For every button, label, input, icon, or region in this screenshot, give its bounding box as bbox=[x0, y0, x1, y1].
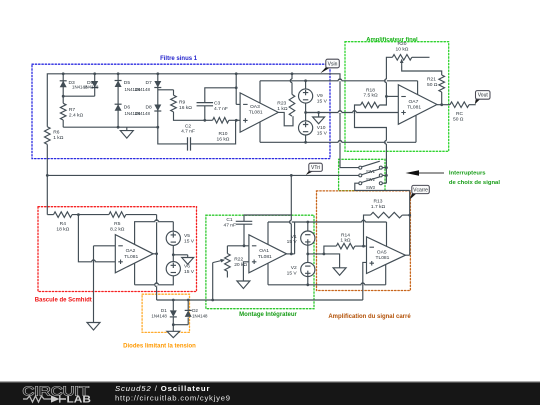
junction rail-D9 bbox=[93, 72, 96, 75]
ground of OA2 minus bbox=[87, 323, 100, 331]
op-amp OA2 TL081 bbox=[115, 235, 153, 273]
resistor R4 bbox=[54, 212, 73, 218]
wire 0V to ground stub bbox=[306, 112, 319, 114]
diode D9 bbox=[91, 81, 98, 88]
junction SW1 to riser bbox=[385, 166, 388, 169]
junction V1-V2 0V node bbox=[306, 253, 309, 256]
junction R4-R5 divider node bbox=[77, 213, 80, 216]
op-amp OA1 TL081 bbox=[249, 235, 287, 273]
diode D1 bbox=[170, 310, 177, 317]
svg-text:1N4148: 1N4148 bbox=[151, 313, 167, 318]
hop output riser over V- row bbox=[156, 283, 157, 287]
wire V+ rail +15V bbox=[260, 80, 418, 82]
wire R5 right to output riser bbox=[126, 214, 157, 216]
wire top rail of filter (summing node) bbox=[47, 74, 358, 168]
junction C1-minus node bbox=[243, 244, 246, 247]
wire 0V rail bbox=[306, 112, 399, 114]
svg-text:Montage Intégrateur: Montage Intégrateur bbox=[239, 312, 297, 318]
junction R10-C2-OA3plus bbox=[235, 119, 238, 122]
svg-text:47 nF: 47 nF bbox=[223, 223, 236, 229]
svg-text:16 kΩ: 16 kΩ bbox=[179, 105, 192, 111]
wire VTri riser bbox=[290, 175, 292, 215]
svg-text:1N4148: 1N4148 bbox=[83, 85, 99, 90]
svg-text:TL081: TL081 bbox=[376, 255, 390, 261]
wiper arrow of R22 bbox=[213, 261, 221, 263]
svg-text:TL081: TL081 bbox=[124, 254, 138, 260]
flag VTri bbox=[306, 170, 314, 175]
svg-text:R14: R14 bbox=[341, 232, 350, 238]
section box Amplification du signal carre (brown dashed) bbox=[317, 191, 411, 291]
resistor R21 bbox=[439, 75, 445, 92]
svg-text:Amplification du signal carré: Amplification du signal carré bbox=[328, 314, 411, 320]
wire C1 bottom lead bbox=[243, 224, 245, 246]
junction bottom row-D8 bbox=[156, 126, 159, 129]
section box Montage Integrateur (green dashed) bbox=[206, 215, 314, 309]
wire C3 top hook to OA3 minus riser bbox=[205, 88, 236, 103]
wire OA3 output jog to R23 bottom bbox=[278, 112, 293, 125]
wire R6 bottom to VTri node bbox=[46, 144, 48, 214]
svg-text:D7: D7 bbox=[146, 80, 153, 86]
wire OA1 output stub bbox=[287, 253, 295, 255]
svg-text:7.5 kΩ: 7.5 kΩ bbox=[363, 93, 378, 99]
wire OA2 minus to ground bbox=[93, 246, 95, 323]
svg-text:1.7 kΩ: 1.7 kΩ bbox=[371, 204, 386, 210]
wire VTri row bbox=[47, 174, 358, 176]
op-amp OA3 TL081 bbox=[240, 93, 278, 132]
svg-text:15 V: 15 V bbox=[287, 239, 298, 245]
section box Filtre sinus 1 (blue dashed) bbox=[32, 64, 330, 158]
svg-text:Vout: Vout bbox=[478, 93, 489, 99]
wire R9 bottom to node A row bbox=[174, 112, 205, 120]
wire minus node to OA7 bbox=[386, 95, 398, 97]
ground of V9-V10 supply bbox=[313, 117, 325, 124]
junction 0V rail-V9V10 bbox=[304, 111, 307, 114]
svg-text:TL081: TL081 bbox=[407, 105, 421, 111]
svg-text:D2: D2 bbox=[192, 308, 198, 313]
wire R13 left corner bbox=[364, 215, 371, 246]
wire D7-D8 column bbox=[157, 74, 159, 127]
svg-text:de choix de signal: de choix de signal bbox=[449, 180, 500, 186]
diode D6 bbox=[115, 103, 122, 105]
svg-text:R18: R18 bbox=[366, 87, 375, 93]
wire OA1 V- riser bbox=[267, 263, 269, 285]
junction rail-R23 bbox=[291, 72, 294, 75]
svg-text:R22: R22 bbox=[234, 256, 243, 262]
junction rail-D5 bbox=[117, 72, 120, 75]
wire D9 column bbox=[94, 74, 96, 96]
svg-text:1N4148: 1N4148 bbox=[135, 87, 151, 92]
potentiometer R20 bbox=[392, 55, 411, 61]
wire SW3 right contact bbox=[383, 182, 387, 184]
svg-text:1 kΩ: 1 kΩ bbox=[277, 106, 288, 112]
svg-text:Vcarre: Vcarre bbox=[413, 187, 428, 193]
junction OA7 minus node bbox=[385, 95, 388, 98]
wire R18 right to minus node bbox=[379, 96, 386, 105]
section box Bascule de Scmhidt (red dashed) bbox=[38, 207, 197, 292]
wire D3-D9 bottom row bbox=[63, 95, 94, 97]
svg-text:V5: V5 bbox=[184, 233, 190, 239]
svg-text:http://circuitlab.com/cykjye9: http://circuitlab.com/cykjye9 bbox=[115, 394, 231, 403]
wire R4-R5 row bbox=[72, 214, 109, 216]
junction node A - C3 bbox=[203, 119, 206, 122]
svg-text:R4: R4 bbox=[60, 221, 67, 227]
voltage source V10 15V bbox=[299, 121, 313, 135]
voltage source V2 15V bbox=[301, 262, 315, 276]
svg-text:4.7 nF: 4.7 nF bbox=[181, 129, 195, 135]
junction rail-D2 bbox=[187, 299, 190, 302]
wire R10 to OA3 plus bbox=[229, 119, 240, 121]
svg-text:VTri: VTri bbox=[311, 165, 320, 171]
hop V- row over output riser bbox=[155, 283, 159, 285]
wire SW3 left to Vcarre net bbox=[355, 183, 410, 190]
svg-text:V1: V1 bbox=[291, 234, 297, 240]
capacitor C3 bbox=[197, 103, 214, 106]
hop VTri riser over V+ row bbox=[291, 220, 292, 224]
wire output riser seg bbox=[294, 222, 296, 254]
footer bar CircuitLab bbox=[0, 381, 540, 405]
wire OA2 minus input bbox=[94, 245, 116, 247]
svg-text:TL081: TL081 bbox=[258, 254, 272, 260]
svg-text:4.7 nF: 4.7 nF bbox=[214, 106, 228, 112]
wire V1-V2 mid bbox=[307, 245, 309, 262]
svg-text:V10: V10 bbox=[317, 125, 326, 131]
svg-text:OA7: OA7 bbox=[409, 99, 419, 105]
wire D5-D6 column bbox=[117, 74, 119, 127]
switch SW1 bbox=[359, 166, 362, 169]
wire rail to OA3 minus riser bbox=[235, 74, 237, 105]
svg-text:15 V: 15 V bbox=[317, 130, 328, 136]
wire OA2 output stub bbox=[153, 253, 157, 255]
svg-text:R20: R20 bbox=[398, 41, 407, 47]
svg-text:R21: R21 bbox=[427, 76, 436, 82]
wire divider node to OA2 plus bbox=[78, 215, 115, 262]
wire V9 top lead bbox=[305, 81, 307, 89]
wire D1 top lead bbox=[172, 300, 174, 310]
svg-text:10 kΩ: 10 kΩ bbox=[396, 46, 409, 52]
wire OA3 V- riser bbox=[259, 122, 261, 142]
junction SW2 to riser bbox=[385, 174, 388, 177]
wire V9-V10 mid bbox=[305, 103, 307, 121]
svg-text:15 V: 15 V bbox=[317, 98, 328, 104]
section box Diodes limitant la tension (orange dashed) bbox=[142, 294, 189, 332]
svg-text:D1: D1 bbox=[161, 308, 167, 313]
svg-text:18 kΩ: 18 kΩ bbox=[56, 227, 69, 233]
wire R20 left lead bbox=[386, 57, 392, 96]
diode D2 bbox=[185, 309, 192, 311]
junction V- rail-V10 bbox=[304, 141, 307, 144]
svg-text:D5: D5 bbox=[124, 80, 131, 86]
svg-text:20 kΩ: 20 kΩ bbox=[234, 262, 247, 268]
hop V- row over OA5 plus riser bbox=[361, 283, 365, 285]
svg-text:R13: R13 bbox=[374, 199, 383, 205]
wire 0V row to OA5 ground bbox=[308, 254, 340, 268]
svg-text:OA2: OA2 bbox=[126, 248, 136, 254]
diode D7 bbox=[154, 81, 161, 88]
hop V+ row over R13 riser bbox=[362, 220, 366, 222]
wire D8 column to C2 left bbox=[158, 127, 181, 144]
wire R23 top lead bbox=[291, 74, 293, 95]
wire OA7 V+ riser bbox=[417, 81, 419, 95]
wire D2 top lead bbox=[187, 300, 189, 310]
hop R20 lead over V+ rail bbox=[386, 79, 387, 83]
wire schmidt supply ground stub bbox=[187, 255, 189, 257]
wire R22 top lead bbox=[226, 246, 228, 254]
wire D3 column bbox=[62, 74, 64, 96]
ground of V5-V6 supply bbox=[182, 258, 194, 265]
wire node A row to R10 bbox=[205, 119, 213, 121]
resistor R7 bbox=[60, 103, 66, 120]
voltage source V6 15V bbox=[166, 262, 180, 276]
resistor RC bbox=[450, 102, 469, 108]
wire C3 bottom lead bbox=[204, 106, 206, 121]
svg-text:Filtre sinus 1: Filtre sinus 1 bbox=[160, 56, 198, 62]
junction D3-R7 node bbox=[62, 95, 65, 98]
wire square-wave rail bbox=[157, 299, 363, 301]
svg-text:R10: R10 bbox=[219, 131, 228, 137]
svg-text:16 kΩ: 16 kΩ bbox=[217, 137, 230, 143]
diode D5 bbox=[115, 80, 122, 82]
diode D8 bbox=[154, 105, 161, 112]
flag Vcarre bbox=[410, 192, 417, 199]
svg-text:50 Ω: 50 Ω bbox=[453, 117, 464, 123]
svg-text:2.4 kΩ: 2.4 kΩ bbox=[69, 112, 84, 118]
junction V+ row-V1 bbox=[306, 221, 309, 224]
wire supply ground stub bbox=[318, 113, 320, 117]
voltage source V9 15V bbox=[299, 89, 313, 103]
wire Vcarre riser bbox=[409, 190, 411, 255]
junction OA7 output node bbox=[440, 103, 443, 106]
resistor R5 bbox=[109, 212, 126, 218]
arrow pointing at switches bbox=[419, 172, 444, 174]
svg-text:OA5: OA5 bbox=[377, 250, 387, 256]
wire C2 left lead bbox=[181, 143, 188, 145]
junction V- row-V2 bbox=[306, 283, 309, 286]
wire D1 bottom lead bbox=[172, 318, 174, 325]
svg-text:V9: V9 bbox=[317, 93, 323, 99]
wire R21 bottom lead bbox=[441, 92, 443, 105]
svg-text:C1: C1 bbox=[226, 217, 233, 223]
switch SW2 bbox=[359, 174, 362, 177]
junction D1-ground node bbox=[172, 323, 175, 326]
hop switch riser over V- rail bbox=[386, 141, 387, 145]
wire minus riser to OA3 bbox=[236, 103, 240, 105]
wire RC to Vout bbox=[469, 104, 476, 106]
resistor R10 bbox=[213, 118, 229, 124]
wire SW1 right contact bbox=[383, 167, 387, 169]
wire C1 top feedback path bbox=[244, 215, 291, 254]
wire OA2 V- riser bbox=[134, 263, 136, 285]
wire V6 bottom to V- row bbox=[135, 276, 174, 285]
potentiometer R22 body bbox=[225, 254, 231, 272]
junction V+ rail-V9 bbox=[304, 79, 307, 82]
svg-text:15 V: 15 V bbox=[184, 238, 195, 244]
junction bottom row-D6 bbox=[117, 126, 120, 129]
svg-text:Vsin: Vsin bbox=[328, 61, 338, 67]
wire OA7 output bbox=[437, 104, 450, 106]
svg-text:LAB: LAB bbox=[67, 395, 92, 405]
hop V+ rail over Vsin line bbox=[338, 79, 342, 81]
wire V1 top lead bbox=[307, 222, 309, 231]
svg-text:D8: D8 bbox=[146, 104, 153, 110]
wire V- row bottom section bbox=[268, 284, 386, 286]
wire SW2 right contact bbox=[383, 174, 387, 176]
wire R22 wiper down to rail bbox=[212, 263, 214, 300]
svg-text:R7: R7 bbox=[69, 107, 76, 113]
hop 0V rail over Vsin line bbox=[338, 111, 342, 113]
svg-text:OA3: OA3 bbox=[250, 104, 260, 110]
junction C3 hook bbox=[235, 86, 238, 89]
wire diode ground stub bbox=[172, 325, 174, 332]
svg-text:15 V: 15 V bbox=[184, 269, 195, 275]
junction ground stub bbox=[317, 111, 320, 114]
flag Vout bbox=[475, 98, 481, 104]
svg-text:1N4148: 1N4148 bbox=[135, 111, 151, 116]
wire R7 top lead bbox=[62, 96, 64, 103]
junction R13-Vcarre node bbox=[408, 214, 411, 217]
section box switch group (green dashed) bbox=[339, 159, 385, 190]
wiper arrow of R20 bbox=[401, 62, 403, 66]
junction R13-R14-minus node bbox=[362, 245, 365, 248]
op-amp OA5 TL081 bbox=[367, 237, 406, 274]
resistor R9 bbox=[171, 95, 177, 112]
svg-text:Interrupteurs: Interrupteurs bbox=[449, 171, 486, 177]
svg-text:R23: R23 bbox=[277, 101, 286, 107]
switch SW3 bbox=[359, 182, 362, 185]
wire OA5 V+ riser bbox=[386, 222, 388, 246]
svg-text:Bascule de Scmhidt: Bascule de Scmhidt bbox=[35, 297, 92, 303]
svg-text:RC: RC bbox=[456, 111, 464, 117]
junction VTri riser bbox=[290, 174, 293, 177]
svg-text:R5: R5 bbox=[114, 221, 121, 227]
wire OA1 minus row bbox=[227, 245, 249, 247]
svg-text:V2: V2 bbox=[291, 265, 297, 271]
junction rail-minus riser bbox=[235, 72, 238, 75]
junction rail-R22 wiper bbox=[211, 299, 214, 302]
svg-text:C2: C2 bbox=[185, 123, 192, 129]
wire D2 bottom lead bbox=[187, 318, 189, 325]
wire R4 row bbox=[47, 214, 53, 216]
flag Vsin bbox=[320, 67, 330, 74]
wire R14 left riser bbox=[324, 246, 336, 254]
ground of diode shaper bbox=[120, 131, 133, 139]
junction 0V row-R14 bbox=[323, 253, 326, 256]
resistor R6 bbox=[45, 127, 51, 145]
svg-text:SW3: SW3 bbox=[366, 185, 376, 190]
svg-text:D6: D6 bbox=[124, 104, 131, 110]
svg-text:Amplificateur final: Amplificateur final bbox=[366, 37, 418, 43]
junction rail-D3 bbox=[62, 72, 65, 75]
svg-text:Diodes limitant la tension: Diodes limitant la tension bbox=[123, 344, 196, 350]
wire R18 left to switch riser bbox=[355, 105, 387, 183]
svg-text:1N4148: 1N4148 bbox=[192, 313, 208, 318]
svg-text:OA1: OA1 bbox=[259, 248, 269, 254]
wire D1-D2 join bbox=[173, 324, 188, 326]
wire R20 right open stub bbox=[412, 56, 430, 58]
wire V10 bottom lead bbox=[305, 135, 307, 142]
svg-text:R6: R6 bbox=[53, 130, 60, 136]
wire OA1 V+ riser bbox=[267, 222, 269, 245]
wire R9 top lead bbox=[173, 90, 175, 95]
hop R23 lead over V+ rail bbox=[291, 79, 292, 83]
svg-text:8.2 kΩ: 8.2 kΩ bbox=[110, 227, 125, 233]
wire OA5 V- riser bbox=[385, 264, 387, 284]
wire R14 right to minus bbox=[355, 245, 367, 247]
wire OA1 plus to ground bbox=[243, 262, 249, 281]
ground of OA1 plus bbox=[237, 281, 250, 289]
op-amp OA7 TL081 bbox=[398, 85, 437, 125]
junction OA2 output node bbox=[155, 252, 158, 255]
svg-text:C3: C3 bbox=[214, 100, 221, 106]
wire R20 wiper to R21 bbox=[402, 66, 442, 75]
capacitor C1 bbox=[236, 221, 253, 224]
wire R13 right lead bbox=[402, 214, 410, 216]
voltage source V1 15V bbox=[301, 231, 315, 245]
voltage source V5 15V bbox=[166, 231, 180, 245]
wire OA2 V+ pin to row bbox=[135, 222, 174, 245]
hop 0V rail over R18 riser bbox=[353, 111, 357, 113]
svg-text:15 V: 15 V bbox=[287, 271, 298, 277]
svg-text:1 kΩ: 1 kΩ bbox=[340, 238, 351, 244]
ground of clamp diodes bbox=[167, 331, 180, 337]
section box Amplificateur final (green dashed) bbox=[345, 42, 449, 152]
wire V+ row bottom section bbox=[268, 221, 387, 223]
resistor R23 bbox=[289, 94, 295, 116]
resistor R18 bbox=[361, 102, 380, 108]
junction rail-D7 bbox=[156, 72, 159, 75]
wire OA5 output stub bbox=[405, 254, 409, 256]
wire 0V to ground stub schmidt bbox=[173, 254, 187, 256]
wire C2 right to plus node bbox=[191, 120, 236, 144]
resistor R13 bbox=[370, 212, 402, 218]
wire V5 top lead bbox=[172, 222, 174, 232]
diode D3 bbox=[60, 80, 67, 82]
hop V+ row over output riser bbox=[155, 220, 159, 222]
svg-text:R9: R9 bbox=[179, 100, 186, 106]
ground of OA5 reference bbox=[333, 268, 346, 276]
node VTri tap on left spine bbox=[46, 174, 49, 177]
hop V- rail over Vsin line bbox=[338, 141, 342, 143]
wire R22 bottom open stub bbox=[226, 271, 228, 277]
svg-text:50 Ω: 50 Ω bbox=[427, 82, 438, 88]
svg-text:1 kΩ: 1 kΩ bbox=[53, 135, 64, 141]
wire V- rail -15V bbox=[260, 141, 416, 143]
capacitor C2 bbox=[188, 137, 191, 150]
wire D7-D8 midpoint to R9 top bbox=[158, 89, 174, 91]
wire V5-V6 mid bbox=[172, 245, 174, 261]
wire R7 bottom lead bbox=[62, 120, 64, 127]
wire shaper bottom row bbox=[63, 126, 158, 128]
hop plus wire over minus riser bbox=[92, 260, 96, 262]
resistor R14 bbox=[336, 243, 355, 249]
junction rail-D1 bbox=[172, 299, 175, 302]
wire V2 bottom lead bbox=[307, 277, 309, 285]
svg-text:TL081: TL081 bbox=[249, 110, 263, 116]
junction OA1 output node bbox=[290, 253, 293, 256]
wire filter ground stub bbox=[126, 127, 128, 130]
junction V5-V6 0V node bbox=[172, 253, 175, 256]
wire OA3 V+ riser bbox=[259, 81, 261, 103]
wire OA7 V- riser bbox=[415, 115, 417, 142]
wire OA5 plus riser to rail bbox=[363, 262, 367, 300]
svg-text:Scuud52 / Oscillateur: Scuud52 / Oscillateur bbox=[115, 384, 210, 393]
wire OA2 output riser bbox=[156, 215, 158, 300]
